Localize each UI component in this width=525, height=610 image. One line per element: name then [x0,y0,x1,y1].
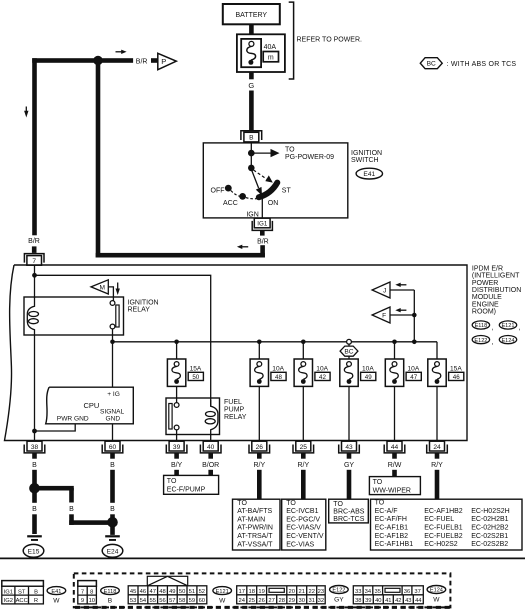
svg-text:49: 49 [169,589,175,595]
svg-text:TO: TO [333,501,343,508]
svg-text:58: 58 [179,598,185,604]
svg-text:44: 44 [391,444,399,451]
connector 26 [249,441,270,458]
node dot pwr gnd junction [32,429,37,434]
ground symbol E24 [102,535,123,557]
flow arrow down [24,107,28,118]
svg-text:41: 41 [385,598,391,604]
connector 24 [427,441,448,458]
rail node dots [110,340,115,345]
destination AT list [233,499,281,550]
svg-text:E121: E121 [501,323,514,329]
svg-text:EC-H02S2H: EC-H02S2H [471,508,510,515]
wire 24 down [435,470,440,499]
svg-text:42: 42 [395,598,401,604]
svg-text:E41: E41 [51,589,61,595]
svg-text:31: 31 [308,598,314,604]
svg-text:57: 57 [169,598,175,604]
svg-text:B/R: B/R [136,58,148,65]
svg-text:35: 35 [374,589,380,595]
wire IG1 stub B/R [260,230,265,235]
svg-text:44: 44 [415,598,422,604]
svg-text:W: W [433,597,440,604]
legend connector E122 face [237,586,326,604]
svg-text:38: 38 [31,444,39,451]
svg-text:EC-IVCB1: EC-IVCB1 [286,508,318,515]
connector ref E118 [472,321,493,332]
svg-text:EC-FUELB2: EC-FUELB2 [424,533,463,540]
OFF position dot [225,185,232,192]
node dot (branch to PG-POWER-09) [248,150,255,157]
svg-text:EC-AF/FH: EC-AF/FH [375,516,407,523]
svg-text:EC-AF1HB1: EC-AF1HB1 [375,541,414,548]
svg-text:CPU: CPU [84,401,100,410]
svg-text:39: 39 [365,598,371,604]
ignition switch box [203,143,347,218]
svg-text:E124: E124 [501,338,514,344]
svg-text:45: 45 [130,589,136,595]
legend connector E118 face [78,581,97,604]
legend ref E122 GY [330,586,349,604]
off-page arrow P [151,53,176,69]
svg-text:POWER: POWER [472,280,498,287]
svg-text:EC-AF1HB2: EC-AF1HB2 [424,508,463,515]
IPDM E/R box [5,265,468,441]
svg-text:GY: GY [344,462,354,469]
svg-text:43: 43 [405,598,411,604]
svg-text:25: 25 [300,444,308,451]
svg-text:ST: ST [18,589,26,595]
svg-text:GND: GND [106,416,121,423]
battery [223,4,280,24]
legend ref E121 W [213,587,232,605]
svg-text:IGNITION: IGNITION [351,150,382,157]
connector 44 [384,441,405,458]
svg-text:E41: E41 [363,171,375,178]
svg-text:55: 55 [149,598,155,604]
svg-text:R/Y: R/Y [431,462,443,469]
svg-text:W: W [53,598,60,605]
svg-text:GY: GY [334,597,344,604]
wire coil to connector 40 [210,435,212,442]
svg-text:B/OR: B/OR [202,462,219,469]
svg-text:EC-F/PUMP: EC-F/PUMP [167,486,206,493]
svg-text:40: 40 [375,598,381,604]
svg-text:15A: 15A [190,366,202,373]
svg-text:BC: BC [344,349,353,356]
wire IG1 feed to fuel pump relay coil [35,275,211,406]
wire 60 ground run [110,470,115,503]
svg-text:7: 7 [32,258,36,265]
svg-text:E24: E24 [107,548,119,555]
wire left drop to connector 7 [32,58,37,235]
svg-text:E121: E121 [216,589,229,595]
wire fuse 48 to connector 26 [258,386,260,441]
wire connector7 to ignition relay [34,265,36,298]
svg-text:EC-VIAS: EC-VIAS [286,541,314,548]
ignition relay [24,297,159,335]
flow arrow down (contact feed) [116,283,120,296]
svg-text:IGNITION: IGNITION [128,299,159,306]
svg-text:51: 51 [189,589,195,595]
CPU [46,387,134,424]
svg-text:ACC: ACC [16,598,28,604]
svg-text:OFF: OFF [211,187,225,194]
svg-text:G: G [248,81,254,90]
svg-text:DISTRIBUTION: DISTRIBUTION [472,287,521,294]
svg-text:BATTERY: BATTERY [235,12,267,19]
svg-text:AT-PWR/IN: AT-PWR/IN [237,525,273,532]
svg-text:48: 48 [275,374,282,381]
svg-text:,: , [519,325,521,332]
svg-text:29: 29 [288,598,294,604]
svg-text:m: m [268,55,274,62]
connector 60 [102,441,123,458]
wire IG1 down and left [260,245,265,257]
svg-text:B: B [69,506,74,513]
svg-text:P: P [161,57,166,66]
legend connector E121 face [128,576,207,604]
svg-text:EC-H02S2: EC-H02S2 [424,541,458,548]
connector 39 [166,441,187,458]
svg-text:E118: E118 [475,323,488,329]
svg-text:ON: ON [268,200,279,207]
svg-text:B: B [32,462,37,469]
svg-text:B/R: B/R [28,238,40,245]
wire rotor to IG1 [261,199,263,219]
footer separator [0,557,525,559]
wire 25 down [301,470,306,499]
flow arrow left [237,245,248,249]
svg-text:B/R: B/R [257,238,269,245]
BC option splice [340,339,358,359]
svg-text:49: 49 [365,374,372,381]
destination BRC list [329,499,369,523]
svg-text:J: J [383,288,386,295]
svg-text:43: 43 [345,444,353,451]
ground junction node [29,483,40,494]
off-page arrow F [372,307,417,323]
wire +IG rail to CPU [112,342,114,387]
wire riser to top junction [96,58,101,257]
svg-text:ROOM): ROOM) [472,309,496,316]
svg-text:B: B [249,135,254,142]
wire fuse 46 to connector 24 [436,386,438,441]
svg-text:EC-02S2B2: EC-02S2B2 [471,541,508,548]
ground tie wire [35,486,74,491]
wire CPU signal gnd to connector 60 [112,424,114,442]
svg-text:RELAY: RELAY [128,307,151,314]
svg-text:,: , [492,339,494,346]
svg-text:39: 39 [173,444,181,451]
svg-text:59: 59 [189,598,195,604]
connector IG1 [252,218,272,230]
svg-text:EC-AF1B1: EC-AF1B1 [375,525,409,532]
svg-text:10A: 10A [408,366,420,373]
svg-text:10A: 10A [316,366,328,373]
svg-text:(INTELLIGENT: (INTELLIGENT [472,273,520,280]
svg-text:M: M [100,285,106,292]
svg-text:60: 60 [199,598,205,604]
svg-text:22: 22 [308,589,314,595]
svg-text:17: 17 [238,589,244,595]
wire fuse 49 to connector 43 [348,386,350,441]
svg-text:PUMP: PUMP [224,406,245,413]
svg-text:60: 60 [109,444,117,451]
fuel pump relay [166,398,247,435]
svg-text:EC-VIAS/V: EC-VIAS/V [286,525,321,532]
svg-text:24: 24 [238,598,245,604]
IPDM E/R label [472,265,521,315]
node dot (switch common) [248,165,255,172]
svg-text:ACC: ACC [223,200,238,207]
svg-text:B: B [108,598,113,605]
svg-text:52: 52 [199,589,205,595]
legend dashed group box [74,573,451,607]
connector ref E41 [356,168,382,179]
destination EC list 2 [371,499,523,550]
svg-text:40: 40 [207,444,215,451]
svg-text:8: 8 [90,589,93,595]
svg-text:34: 34 [365,589,372,595]
svg-text:26: 26 [256,444,264,451]
wire 40 to EC-F/PUMP [208,470,213,476]
svg-text:R/Y: R/Y [297,462,309,469]
svg-text:R/Y: R/Y [253,462,265,469]
wire 26 down [257,470,262,499]
svg-text:AT-MAIN: AT-MAIN [237,516,265,523]
svg-text:37: 37 [414,589,420,595]
wire 43 down [347,470,352,499]
rail drop to fuse 42 [302,342,304,360]
fuse 15A 46 [428,359,464,386]
ground junction node 60 [107,517,118,528]
svg-text:EC-A/F: EC-A/F [375,508,398,515]
svg-text:EC-02S2B1: EC-02S2B1 [471,533,508,540]
junction node B/R [93,56,102,65]
svg-text:E118: E118 [104,589,117,595]
svg-text:E124: E124 [430,588,443,594]
svg-text:46: 46 [140,589,146,595]
legend ref E118 B [101,587,120,605]
svg-text:WW-WIPER: WW-WIPER [373,488,411,495]
svg-text:B: B [110,506,115,513]
svg-text:PG-POWER-09: PG-POWER-09 [285,154,334,161]
svg-text:33: 33 [355,589,361,595]
svg-text:: WITH ABS OR TCS: : WITH ABS OR TCS [447,61,517,68]
rail drop to fuse 47 [394,342,396,360]
rail drop to fuse 48 [258,342,260,360]
svg-text:IG2: IG2 [4,598,13,604]
svg-text:10A: 10A [272,366,284,373]
svg-text:AT-VSSA/T: AT-VSSA/T [237,541,273,548]
wire 38 ground run [32,470,37,503]
legend connector E41 face [2,581,44,604]
svg-text:EC-FUEL: EC-FUEL [424,516,454,523]
svg-text:ST: ST [282,188,292,195]
svg-text:B/Y: B/Y [171,462,183,469]
connector 43 [339,441,360,458]
wire battery to fusible link [249,24,254,34]
svg-text:48: 48 [159,589,165,595]
rail drop to fuse 50 [176,342,178,360]
wire ignition relay coil to connector 38 [34,335,36,441]
svg-text:15A: 15A [450,366,462,373]
legend ref E124 W [427,586,446,604]
wire 39 to EC-F/PUMP [174,470,179,476]
svg-text:23: 23 [318,589,324,595]
legend connector E124 face [353,586,423,604]
svg-text:TO: TO [237,500,247,507]
arrow TO PG-POWER-09 [251,147,334,161]
off-page arrow J [372,282,414,298]
svg-text:EC-AF1B2: EC-AF1B2 [375,533,409,540]
svg-text:30: 30 [298,598,304,604]
svg-text:7: 7 [81,589,84,595]
svg-text:47: 47 [149,589,155,595]
svg-text:REFER TO POWER.: REFER TO POWER. [297,37,363,44]
connector B (ignition switch) [241,131,262,142]
svg-text:EC-FUELB1: EC-FUELB1 [424,525,463,532]
svg-text:TO: TO [285,147,295,154]
connector 7 [24,254,44,266]
fuse 10A 47 [385,359,421,386]
svg-text:R/W: R/W [388,462,402,469]
ACC position dot [239,193,246,200]
dashed arrow to ST [254,170,273,183]
svg-text:IG1: IG1 [257,221,268,228]
svg-text:40A: 40A [264,44,277,51]
svg-text:BRC-ABS: BRC-ABS [333,508,364,515]
fuse 15A 50 [167,359,203,386]
svg-text:TO: TO [167,478,177,485]
ground symbol E15 [23,535,44,557]
svg-text:50: 50 [192,374,199,381]
fuse 10A 48 [250,359,286,386]
svg-text:MODULE: MODULE [472,294,502,301]
svg-text:25: 25 [248,598,254,604]
svg-text:PWR GND: PWR GND [57,416,89,423]
fusible link 40A (m) [237,34,285,72]
svg-text:+ IG: + IG [107,391,120,398]
svg-text:9: 9 [81,598,84,604]
svg-text:SWITCH: SWITCH [351,157,379,164]
node dot IG1 branch [32,273,37,278]
svg-text:26: 26 [258,598,264,604]
rail drop to fuse 46 [436,342,438,360]
connector ref E121 [499,321,520,332]
svg-text:24: 24 [433,444,441,451]
rotor arc (ON-ST) [259,183,278,198]
svg-text:IPDM E/R: IPDM E/R [472,265,503,272]
svg-text:10: 10 [89,598,95,604]
wire contact to connector 39 [176,430,178,442]
fuse 10A 42 [294,359,330,386]
svg-text:B: B [110,462,115,469]
ignition relay contact [110,301,119,329]
svg-text:,: , [492,325,494,332]
wire fuse 42 to connector 25 [302,386,304,441]
svg-text:B: B [34,589,38,595]
wire fuse 50 to fuel pump relay contact [176,386,178,402]
destination TO WW-WIPER [369,477,420,495]
fuel pump relay contact [169,403,179,430]
svg-text:EC-VENT/V: EC-VENT/V [286,533,324,540]
wire 44 to WW-WIPER [392,470,397,477]
connector 40 [200,441,221,458]
destination EC list 1 [282,499,326,550]
svg-text:R: R [34,598,38,604]
svg-text:46: 46 [453,374,460,381]
svg-text:36: 36 [404,589,410,595]
destination TO EC-F/PUMP [164,475,219,494]
svg-text:ENGINE: ENGINE [472,301,499,308]
svg-text:56: 56 [159,598,165,604]
svg-text:F: F [382,313,386,320]
svg-text:B: B [32,506,37,513]
svg-text:21: 21 [298,589,304,595]
svg-text:27: 27 [268,598,274,604]
flow arrow right [116,50,127,54]
svg-text:TO: TO [286,500,296,507]
fuse 10A 49 [340,359,376,386]
svg-text:E122: E122 [474,338,487,344]
svg-text:TO: TO [373,479,383,486]
+IG rail [113,341,438,343]
dashed arc OFF to ACC [231,191,240,197]
svg-text:53: 53 [130,598,136,604]
svg-text:50: 50 [179,589,185,595]
ignition relay coil [27,297,34,335]
svg-text:TO: TO [375,499,385,506]
svg-text:E15: E15 [28,548,40,555]
svg-text:BC: BC [427,61,436,68]
svg-text:IGN: IGN [246,211,258,218]
wire G to ignition switch [249,91,254,131]
riser to J/F arrows [413,290,415,342]
svg-text:BRC-TCS: BRC-TCS [333,516,364,523]
svg-text:42: 42 [319,374,326,381]
svg-text:AT-BA/FTS: AT-BA/FTS [237,508,272,515]
svg-text:20: 20 [288,589,294,595]
svg-text:18: 18 [248,589,254,595]
badge BC legend [420,58,516,69]
wire contact to +IG rail [112,329,114,342]
svg-text:19: 19 [258,589,264,595]
connector ref E124 [499,336,516,344]
connector 38 [24,441,45,458]
svg-text:38: 38 [355,598,361,604]
svg-text:W: W [219,598,226,605]
wire fusible link down [249,72,254,79]
solid arrow to ON [252,171,262,196]
svg-text:RELAY: RELAY [224,414,247,421]
bracket REFER TO POWER [289,2,294,79]
svg-text:EC-02H2B1: EC-02H2B1 [471,516,508,523]
wire top bus [32,58,133,63]
wire fuse 47 to connector 44 [394,386,396,441]
connector 25 [293,441,314,458]
dashed arc ACC to ON [246,198,257,199]
svg-text:28: 28 [278,598,284,604]
svg-text:32: 32 [318,598,324,604]
svg-text:EC-PGC/V: EC-PGC/V [286,516,320,523]
svg-text:AT-TRSA/T: AT-TRSA/T [237,533,273,540]
connector ref E122 [472,336,493,347]
svg-text:IG1: IG1 [4,589,13,595]
wire CPU pwr gnd to 38 wire [35,424,76,431]
legend ref E41 W [47,587,66,605]
